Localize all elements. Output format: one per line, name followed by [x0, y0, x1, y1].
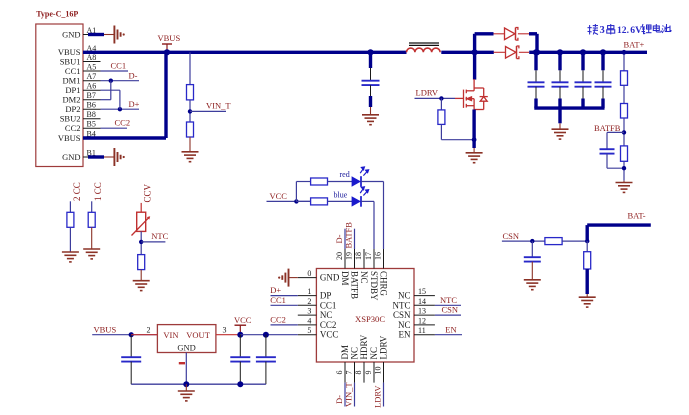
- svg-text:B6: B6: [87, 101, 96, 110]
- svg-text:6: 6: [335, 371, 344, 375]
- node BATFB junction: [623, 118, 625, 146]
- net CC1 stub from J1-A5: [101, 70, 129, 72]
- svg-text:VOUT: VOUT: [186, 330, 210, 340]
- svg-text:LDRV: LDRV: [416, 88, 439, 98]
- svg-text:D+: D+: [129, 99, 140, 109]
- wire MOSFET source to ground (thick): [472, 110, 475, 149]
- svg-text:BAT-: BAT-: [628, 211, 646, 221]
- svg-text:NTC: NTC: [151, 231, 168, 241]
- svg-text:VIN: VIN: [163, 330, 178, 340]
- svg-text:3: 3: [600, 25, 605, 36]
- svg-text:1 CC: 1 CC: [93, 182, 103, 201]
- svg-text:NC: NC: [398, 291, 411, 301]
- svg-text:NC: NC: [349, 347, 359, 360]
- svg-text:GND: GND: [62, 152, 80, 162]
- resistor CSN series: [545, 238, 562, 245]
- svg-text:13: 13: [418, 307, 426, 316]
- svg-text:BATFB: BATFB: [344, 222, 354, 249]
- svg-text:2: 2: [147, 325, 151, 334]
- svg-text:XSP30C: XSP30C: [355, 314, 385, 324]
- svg-text:A6: A6: [87, 82, 97, 91]
- svg-text:5: 5: [307, 326, 311, 335]
- svg-text:1: 1: [307, 287, 311, 296]
- resistor CC2 pulldown: [67, 212, 74, 227]
- wire VBUS thick rail from J1-A4 to inductor: [83, 51, 407, 54]
- capacitor input C5: [130, 335, 132, 357]
- svg-text:CSN: CSN: [442, 305, 459, 315]
- ground under regulator: [185, 384, 187, 390]
- svg-text:18: 18: [354, 252, 363, 260]
- svg-text:LDRV: LDRV: [378, 335, 388, 359]
- U2 pin1 GND stem with rotated '1': [185, 353, 187, 385]
- wire bottom rail of cap bank (thick): [534, 106, 604, 109]
- svg-text:2 CC: 2 CC: [72, 182, 82, 201]
- resistor divider upper R on VBUS: [189, 52, 191, 84]
- capacitor on VBUS rail near inductor: [369, 52, 372, 68]
- svg-text:SBU1: SBU1: [60, 56, 81, 66]
- svg-text:NTC: NTC: [440, 295, 457, 305]
- annotation: chinese text 接3串12.6V锂电池: [588, 24, 599, 35]
- connector J1 Type-C_16P body: [36, 24, 83, 167]
- transistor Q1 NMOS: [455, 79, 488, 110]
- LED red D3: [328, 181, 353, 183]
- ground under CSN cap: [524, 280, 541, 290]
- svg-text:STDBY: STDBY: [369, 271, 379, 301]
- wire ground rail of regulator section: [131, 383, 266, 385]
- regulator U2 body (VIN VOUT GND): [157, 325, 216, 353]
- svg-text:DM1: DM1: [63, 76, 81, 86]
- svg-text:CHRG: CHRG: [379, 271, 389, 297]
- wire MOSFET drain (thick) from diode junction: [473, 52, 476, 79]
- svg-text:6V: 6V: [630, 25, 642, 36]
- svg-text:EN: EN: [445, 324, 456, 334]
- net label CSN at U1 pin13: [435, 314, 461, 316]
- resistor red-LED series: [311, 178, 328, 185]
- svg-text:VIN_T: VIN_T: [344, 382, 354, 407]
- capacitor on BATFB: [606, 132, 608, 149]
- power symbol VBUS: [166, 44, 168, 52]
- LED blue D4: [328, 200, 353, 202]
- svg-text:BAT+: BAT+: [624, 40, 645, 50]
- svg-text:LDRV: LDRV: [372, 385, 382, 408]
- net label NTC at U1 pin14: [435, 304, 461, 306]
- svg-text:VBUS: VBUS: [58, 133, 81, 143]
- capacitor at x=560: [557, 49, 563, 55]
- junction diode branch: [472, 49, 478, 55]
- net D- wire from J1-A7, junction to B7: [101, 80, 140, 82]
- svg-text:12: 12: [418, 316, 426, 325]
- svg-text:blue: blue: [334, 191, 348, 200]
- svg-text:B7: B7: [87, 91, 96, 100]
- svg-text:CC1: CC1: [270, 295, 286, 305]
- svg-text:D-: D-: [129, 70, 138, 80]
- resistor CSN shunt: [586, 241, 588, 252]
- svg-text:D-: D-: [334, 234, 344, 243]
- wire U2 VIN red lead: [131, 334, 157, 336]
- net label EN at U1 pin11: [435, 334, 462, 336]
- svg-text:A8: A8: [87, 53, 97, 62]
- svg-text:A5: A5: [87, 63, 97, 72]
- svg-text:SBU2: SBU2: [60, 114, 81, 124]
- svg-text:DM2: DM2: [63, 95, 81, 105]
- svg-text:VCC: VCC: [234, 315, 252, 325]
- capacitor output Ca: [239, 335, 241, 357]
- svg-text:HDRV: HDRV: [359, 334, 369, 359]
- svg-text:CC1: CC1: [320, 300, 337, 310]
- net label CC1 at U1 pin2: [271, 304, 298, 306]
- capacitor at x=536: [533, 49, 539, 55]
- wire VCC to U1 pin5: [240, 334, 297, 336]
- inductor core bars: [409, 42, 439, 44]
- capacitor at x=583: [580, 49, 586, 55]
- ground at U1 pin 0 (GND): [289, 277, 298, 279]
- svg-text:11: 11: [418, 326, 426, 335]
- wire rail after inductor: [441, 51, 494, 54]
- svg-text:14: 14: [418, 297, 426, 306]
- wire J1-B4 VBUS to rail (thick): [83, 136, 166, 139]
- ground under VIN_T divider: [189, 137, 191, 152]
- junction after diodes: [534, 49, 540, 55]
- svg-text:CC2: CC2: [65, 123, 81, 133]
- svg-text:9: 9: [364, 371, 373, 375]
- ground under BATFB divider: [623, 181, 625, 183]
- svg-text:12.: 12.: [617, 25, 629, 36]
- capacitor on CSN: [531, 241, 533, 257]
- wire BAT+ rail: [537, 51, 647, 54]
- svg-text:GND: GND: [62, 29, 80, 39]
- net stub BATFB at U1 pin19 (vertical label): [354, 229, 356, 249]
- svg-text:8: 8: [354, 371, 363, 375]
- ground under NTC resistor: [133, 281, 150, 291]
- resistor BAT+ divider R2: [623, 85, 625, 103]
- svg-text:0: 0: [307, 269, 311, 278]
- svg-text:VIN_T: VIN_T: [206, 101, 231, 111]
- resistor BAT+ divider R1: [623, 52, 625, 71]
- svg-text:10: 10: [374, 367, 383, 375]
- svg-text:VBUS: VBUS: [94, 324, 117, 334]
- svg-text:3: 3: [223, 325, 227, 334]
- resistor CC1 pulldown: [88, 212, 95, 227]
- svg-text:CC1: CC1: [111, 61, 127, 71]
- resistor BAT+ divider R3: [621, 146, 628, 161]
- wire blue LED to U1 pin17: [361, 200, 374, 202]
- svg-text:CCV: CCV: [143, 183, 153, 202]
- wire U2 VOUT red lead: [216, 334, 240, 336]
- svg-text:19: 19: [345, 252, 354, 260]
- power symbol VCC at U2 output: [239, 325, 241, 335]
- svg-text:16: 16: [374, 252, 383, 260]
- inductor L1 in VBUS rail: [407, 48, 441, 52]
- svg-text:CC2: CC2: [320, 320, 337, 330]
- junction VBUS/B4: [164, 49, 170, 55]
- svg-text:VCC: VCC: [270, 191, 288, 201]
- svg-text:DP: DP: [320, 291, 332, 301]
- svg-text:BATFB: BATFB: [350, 271, 360, 299]
- resistor NTC lower: [138, 255, 145, 270]
- capacitor at x=603: [600, 49, 606, 55]
- wire red LED to U1 pin16: [361, 181, 384, 183]
- svg-text:NTC: NTC: [393, 300, 411, 310]
- svg-text:D-: D-: [334, 395, 344, 404]
- net stub D- at U1 pin6 (vertical label): [344, 383, 346, 407]
- svg-text:CSN: CSN: [393, 310, 411, 320]
- node NTC junction + label: [140, 231, 142, 254]
- svg-text:VCC: VCC: [320, 330, 339, 340]
- svg-text:red: red: [340, 170, 350, 179]
- svg-text:NC: NC: [320, 310, 333, 320]
- J1 A1 GND net: thick segment + earth ground: [88, 33, 104, 36]
- ground under shunt: [579, 297, 596, 307]
- svg-text:NC: NC: [359, 271, 369, 284]
- svg-text:4: 4: [307, 316, 311, 325]
- svg-text:DM: DM: [340, 345, 350, 360]
- svg-text:EN: EN: [399, 330, 411, 340]
- svg-text:3: 3: [307, 307, 311, 316]
- wire shunt to ground (thick): [586, 269, 589, 294]
- net stub LDRV at U1 pin10 (vertical label): [383, 383, 385, 407]
- diode branch left vertical (thick): [473, 34, 476, 53]
- svg-text:B5: B5: [87, 120, 96, 129]
- wire BAT- rail (thick): [586, 225, 589, 241]
- ground stem of cap bank: [558, 108, 561, 123]
- svg-text:A7: A7: [87, 72, 97, 81]
- ground under CC2 resistor: [62, 252, 79, 262]
- svg-text:GND: GND: [177, 343, 195, 353]
- svg-text:VBUS: VBUS: [158, 33, 181, 43]
- svg-text:DP2: DP2: [65, 104, 80, 114]
- svg-text:CC1: CC1: [65, 66, 81, 76]
- resistor divider lower R: [187, 122, 194, 137]
- svg-text:NC: NC: [369, 347, 379, 360]
- svg-text:17: 17: [364, 252, 373, 260]
- svg-text:GND: GND: [320, 273, 340, 283]
- net label D+ at U1 pin1: [271, 295, 298, 297]
- svg-text:7: 7: [345, 371, 354, 375]
- ground under CC1 resistor: [83, 249, 100, 259]
- net D+ wire from J1-B6, junction to A6: [101, 108, 140, 110]
- svg-text:B8: B8: [87, 110, 96, 119]
- svg-text:DP1: DP1: [65, 85, 80, 95]
- J1 B1 GND net: thick segment + earth ground: [88, 155, 104, 158]
- thermistor RT1 (variable resistor): [137, 212, 146, 231]
- svg-text:CC2: CC2: [115, 117, 131, 127]
- net label CC2 at U1 pin4: [271, 324, 298, 326]
- svg-text:NC: NC: [398, 320, 411, 330]
- diode D1 (top): [494, 33, 505, 35]
- diode D2 (bottom, in rail): [494, 51, 506, 53]
- svg-text:BATFB: BATFB: [594, 123, 621, 133]
- net stub VIN_T at U1 pin7 (vertical label): [354, 383, 356, 407]
- svg-text:15: 15: [418, 287, 426, 296]
- svg-text:DM: DM: [340, 271, 350, 286]
- net stub D- at U1 pin20 (vertical label): [344, 229, 346, 249]
- resistor blue-LED series: [296, 200, 310, 202]
- svg-text:D+: D+: [270, 285, 281, 295]
- net CC2 stub from J1-B5: [101, 127, 128, 129]
- svg-text:Type-C_16P: Type-C_16P: [36, 9, 78, 18]
- resistor R gate pulldown: [440, 98, 442, 110]
- ground under MOSFET: [466, 153, 483, 163]
- svg-text:20: 20: [335, 252, 344, 260]
- diode D1 output corner (thick): [529, 32, 537, 35]
- svg-text:CSN: CSN: [503, 231, 520, 241]
- svg-text:2: 2: [307, 297, 311, 306]
- svg-text:CC2: CC2: [270, 315, 286, 325]
- capacitor output Cb: [265, 335, 267, 357]
- op-amp U1 XSP30C body: [316, 269, 414, 363]
- node VIN_T junction + label: [189, 100, 191, 122]
